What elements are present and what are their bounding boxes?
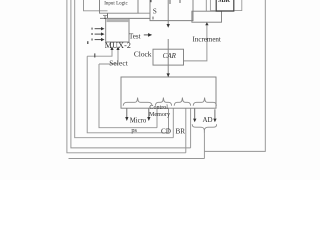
box MUX1 (S box, cropped): [150, 0, 193, 21]
svg-text:SBR: SBR: [218, 0, 231, 4]
arrowhead AD left: [193, 119, 196, 123]
arrowhead micro left: [125, 117, 128, 121]
box SBR (cropped, dark): [216, 0, 234, 11]
wire field drop extra: [190, 108, 192, 148]
wire BR field drop right: [185, 108, 187, 153]
box MUX2: [106, 18, 129, 42]
wire Test stub: [144, 34, 149, 36]
wire CD field drop left: [156, 108, 158, 128]
wire BR field drop left: [172, 108, 174, 138]
arrowhead select A: [110, 46, 113, 50]
brace microops field: [123, 98, 152, 106]
svg-text:Select: Select: [109, 59, 128, 67]
arrowhead incrementer input: [205, 22, 208, 25]
wire AD merge down: [203, 134, 205, 159]
svg-text:AD: AD: [202, 116, 212, 124]
wire select A to MUX2: [87, 50, 112, 56]
box CAR: [153, 49, 184, 65]
wire left feedback loop 3: [75, 0, 174, 138]
wire into CAR and control memory: [167, 39, 169, 77]
arrowhead MUX2 stub 3: [95, 39, 102, 41]
wire MUX1 output down: [167, 0, 169, 24]
svg-text:CD: CD: [161, 128, 171, 136]
wire left feedback loop 1: [67, 0, 186, 153]
svg-text:Control: Control: [149, 105, 168, 111]
box incrementer: [192, 11, 222, 22]
input mark 1: [87, 41, 89, 44]
wire above incrementer: [205, 0, 207, 11]
pin tick on MUX1 top 2: [179, 0, 181, 3]
svg-text:Memory: Memory: [149, 112, 171, 118]
svg-text:Increment: Increment: [193, 36, 221, 44]
box control memory: [121, 77, 216, 108]
wire logic box to MUX1: [138, 12, 150, 14]
wire AD drop right: [214, 109, 216, 119]
wire bottom long: [69, 158, 205, 160]
svg-text:Input Logic: Input Logic: [104, 1, 128, 6]
brace AD field: [193, 98, 216, 106]
wire AD bottom to right: [205, 0, 266, 151]
wire T from logic to MUX2: [107, 13, 109, 18]
wire left feedback loop 5: [99, 64, 157, 128]
svg-text:Micro: Micro: [130, 117, 147, 124]
arrowhead MUX2 stub 1: [95, 28, 102, 30]
wire micro drop right: [148, 108, 150, 117]
wire input logic top-left: [84, 0, 108, 11]
svg-text:ps: ps: [131, 127, 137, 134]
junction tick: [94, 53, 96, 57]
wire rail above MUX2: [100, 17, 150, 19]
wire select B to MUX2: [99, 50, 118, 64]
arrowhead Test: [148, 33, 152, 37]
brace BR field: [174, 98, 190, 106]
arrowhead MUX2 stub 2: [95, 33, 102, 35]
arrowhead AD right: [213, 119, 216, 123]
MUX2 top shaded bar: [107, 19, 129, 22]
box input logic: [100, 0, 139, 13]
arrowhead micro right: [147, 117, 150, 121]
svg-text:S: S: [153, 8, 157, 16]
arrowhead select B: [116, 46, 119, 50]
svg-text:Test: Test: [129, 33, 141, 41]
pin tick on MUX1 top: [169, 0, 171, 4]
svg-text:Clock: Clock: [134, 49, 152, 58]
wire CAR to incrementer: [184, 25, 207, 61]
wire CD field drop right: [168, 108, 170, 133]
box top-right outer: [210, 0, 241, 11]
wire left feedback loop 2: [71, 0, 191, 148]
arrowhead MUX1 output: [167, 24, 170, 28]
pin mark MUX1 top-left: [150, 0, 152, 2]
svg-text:T: T: [103, 14, 107, 21]
wire left feedback loop 4: [87, 56, 168, 133]
wire micro drop left: [126, 108, 128, 117]
svg-text:MUX-2: MUX-2: [105, 41, 131, 50]
svg-text:CAR: CAR: [163, 52, 177, 60]
svg-text:BR: BR: [176, 128, 186, 136]
brace CD field: [155, 98, 171, 106]
wire AD drop left: [194, 108, 196, 119]
bracket AD merge: [192, 124, 216, 134]
arrowhead into control memory: [167, 73, 170, 77]
input label marks MUX2: [91, 28, 93, 30]
